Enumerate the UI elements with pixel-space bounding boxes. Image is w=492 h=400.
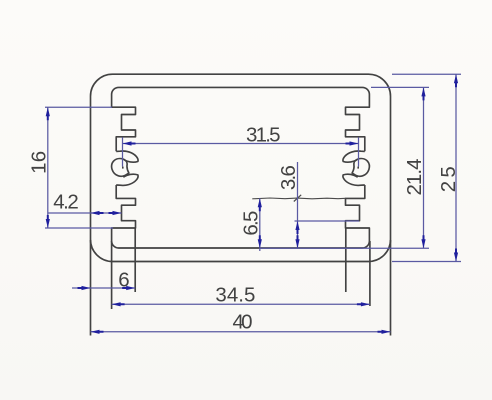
svg-text:40: 40: [233, 311, 253, 334]
svg-text:21.4: 21.4: [403, 159, 426, 196]
svg-text:31.5: 31.5: [246, 123, 281, 146]
svg-text:6.5: 6.5: [239, 211, 262, 236]
svg-text:3.6: 3.6: [277, 165, 300, 190]
svg-text:34.5: 34.5: [215, 283, 255, 306]
svg-text:6: 6: [118, 269, 129, 292]
svg-text:4.2: 4.2: [53, 191, 79, 214]
svg-text:16: 16: [28, 151, 51, 174]
